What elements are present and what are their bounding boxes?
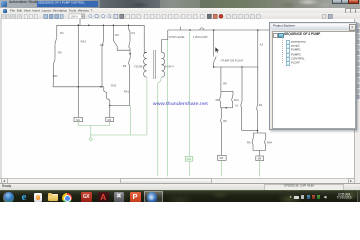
node dot bus-88 xyxy=(88,25,90,27)
transformer T1 primary winding xyxy=(144,52,147,77)
node dot merge1 xyxy=(225,107,227,109)
svg-text:R4: R4 xyxy=(259,103,263,107)
wire drop to R8 xyxy=(220,67,222,91)
node dot merge2 xyxy=(257,130,259,132)
node dot bus-pumpfloat xyxy=(213,29,215,31)
contact R0 branch xyxy=(113,25,130,50)
wire cross link xyxy=(214,66,258,68)
tray icons xyxy=(289,195,292,198)
right vertical toolbar xyxy=(354,19,360,183)
title bar (aero glass) xyxy=(0,0,360,8)
green wire secondary bottom xyxy=(158,77,161,176)
IE icon xyxy=(19,192,30,203)
aero window buttons xyxy=(332,0,343,4)
svg-text:R4: R4 xyxy=(132,31,136,35)
wire return horizontal xyxy=(110,104,131,106)
adobe icon xyxy=(98,192,109,203)
wire split pair bottom xyxy=(253,131,265,134)
schematic SVG xyxy=(0,19,360,183)
transformer T1 primary lead xyxy=(144,25,147,52)
svg-text:STOP LEVEL: STOP LEVEL xyxy=(169,35,186,39)
svg-text:R2: R2 xyxy=(100,43,104,47)
contact SA4 xyxy=(232,91,233,108)
clock xyxy=(334,193,355,200)
wire parallel merge xyxy=(221,107,233,109)
powerpoint icon xyxy=(130,192,141,203)
green wire M2 drop xyxy=(109,122,111,126)
contact R4 branch1 xyxy=(55,25,57,59)
media icon xyxy=(34,193,43,202)
node dot midbus-R2 xyxy=(100,86,102,88)
wire stub up xyxy=(79,19,81,25)
svg-text:1.0M FLOAT: 1.0M FLOAT xyxy=(193,35,209,39)
svg-text:R4: R4 xyxy=(60,31,64,35)
app icon xyxy=(1,1,7,7)
active app tile xyxy=(144,191,163,205)
green wire v167 xyxy=(167,40,169,177)
tree item PUMP1 xyxy=(286,48,291,53)
svg-text:100%: 100% xyxy=(70,14,78,18)
svg-text:RA1: RA1 xyxy=(124,90,130,94)
contact R4 branch4 xyxy=(129,25,131,53)
selected title xyxy=(37,1,98,8)
node dot float-junction xyxy=(213,66,215,68)
node dot bus-RA3 xyxy=(77,24,79,26)
connector diamond xyxy=(89,137,92,140)
svg-text:M4: M4 xyxy=(258,157,262,161)
contact R2 branch3 xyxy=(102,25,103,87)
wire parallel2 merge xyxy=(242,130,258,132)
float switch stub xyxy=(180,27,182,30)
contact R6 branch1 xyxy=(53,59,55,81)
wire mid bus L2 xyxy=(53,86,104,88)
wire M2 drop xyxy=(109,105,111,117)
green wire branch4 drop xyxy=(129,106,131,135)
node dot bus-R0 xyxy=(113,25,115,27)
taskbar xyxy=(0,190,360,203)
GX red icon xyxy=(81,192,92,203)
folder icon xyxy=(48,194,58,201)
coil M2 xyxy=(106,117,114,121)
float contact PUMP ON FLOAT xyxy=(214,30,217,67)
wire L1 top-left bus xyxy=(57,24,144,26)
coil M3 xyxy=(218,155,227,160)
svg-text:R5: R5 xyxy=(123,64,127,68)
svg-text:RA2: RA2 xyxy=(111,84,117,88)
green wire lower bus xyxy=(78,125,110,127)
start orb xyxy=(3,192,14,203)
svg-text:R9: R9 xyxy=(216,98,220,102)
svg-text:M2: M2 xyxy=(108,118,112,122)
tree item pump2 xyxy=(286,44,291,49)
contact RA4 xyxy=(265,133,266,151)
horizontal scrollbar xyxy=(0,178,354,185)
toolbar xyxy=(0,13,360,20)
svg-text:FS1: FS1 xyxy=(187,158,192,161)
svg-text:R8: R8 xyxy=(223,82,227,86)
svg-text:M3: M3 xyxy=(220,156,224,160)
svg-text:R5: R5 xyxy=(223,119,227,123)
node dot bus-A2 xyxy=(257,29,259,31)
node dot bus-float xyxy=(189,29,191,31)
tree item CONTROL xyxy=(286,57,291,62)
green wire M1 drop xyxy=(77,122,79,126)
contact SP1 branch1 xyxy=(52,81,55,87)
svg-text:R6: R6 xyxy=(58,50,62,54)
float sensor FS1 xyxy=(185,157,193,162)
node dot branch4 xyxy=(129,53,131,55)
tool icon xyxy=(114,192,125,203)
tree dotted line xyxy=(282,37,283,63)
svg-text:↑ PUMP ON FLOAT: ↑ PUMP ON FLOAT xyxy=(220,59,244,63)
svg-text:R6: R6 xyxy=(247,140,251,144)
wire L1 right bus xyxy=(168,29,272,31)
node dot link-A1 xyxy=(241,66,242,67)
contact R6b xyxy=(252,133,253,151)
tree item PUMP2 xyxy=(286,53,291,58)
contact RA2 drop to M2 xyxy=(104,87,110,106)
transformer T1 core xyxy=(154,50,156,79)
svg-text:SP1: SP1 xyxy=(53,74,59,78)
contact R4c right xyxy=(257,67,258,131)
contact R5 branch4 xyxy=(129,54,131,106)
coil M1 xyxy=(74,117,83,121)
green wire M3 drop xyxy=(221,160,223,176)
svg-text:A1: A1 xyxy=(235,104,239,108)
tree root SEQUENCE OF 3 PUMP xyxy=(273,33,278,38)
chrome icon xyxy=(62,193,72,203)
node dot midbus-RA3 xyxy=(78,86,80,88)
svg-text:A2: A2 xyxy=(260,43,264,47)
svg-text:SA4: SA4 xyxy=(234,98,240,102)
green wire float line xyxy=(189,32,191,177)
tree item powerpump xyxy=(286,40,291,45)
green wire center drop xyxy=(90,126,92,138)
green wire return bus xyxy=(91,134,147,136)
status bar xyxy=(0,183,360,191)
green wire M4 drop xyxy=(259,161,261,177)
coil M4 xyxy=(256,156,264,161)
node dot bus-R2 xyxy=(103,25,105,27)
show desktop xyxy=(357,191,360,203)
mouse cursor xyxy=(215,47,219,53)
svg-text:733.88 V: 733.88 V xyxy=(134,64,145,68)
transformer T1 secondary winding xyxy=(162,52,165,77)
child window buttons xyxy=(345,8,351,14)
project explorer panel xyxy=(269,22,357,130)
canvas xyxy=(0,19,354,178)
svg-text:RA3: RA3 xyxy=(81,40,87,44)
svg-text:www.thundershare.net: www.thundershare.net xyxy=(153,101,209,107)
transformer T1 secondary top lead xyxy=(162,30,168,52)
contact A2 branch xyxy=(257,30,259,71)
svg-text:M1: M1 xyxy=(76,118,80,122)
wire branch RA3 xyxy=(77,25,79,117)
green wire primary bottom xyxy=(146,77,148,135)
contact R9 xyxy=(220,91,221,108)
svg-text:24.94 V: 24.94 V xyxy=(165,64,174,68)
contact A1 left xyxy=(241,67,242,131)
tree item FLOAT xyxy=(286,61,291,66)
wire merge to M4 xyxy=(253,151,266,157)
contact R5b xyxy=(221,108,222,156)
svg-text:RA4: RA4 xyxy=(267,140,273,144)
wire parallel split top xyxy=(221,90,233,92)
menu bar xyxy=(0,8,360,13)
node dot bus-R4b xyxy=(128,25,130,27)
node dot M2-top xyxy=(109,105,111,107)
wire hop xyxy=(200,28,204,30)
svg-text:R0: R0 xyxy=(115,33,119,37)
